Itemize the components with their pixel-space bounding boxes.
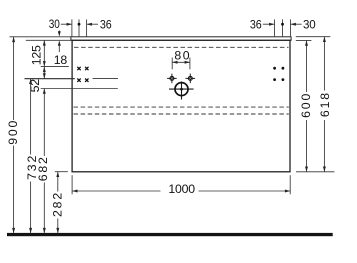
svg-text:125: 125 xyxy=(29,45,43,65)
dim 52 line xyxy=(43,67,45,79)
ext line row1 left xyxy=(41,65,69,67)
svg-text:900: 900 xyxy=(6,120,20,144)
svg-text:600: 600 xyxy=(299,94,313,118)
faucet mark left xyxy=(167,74,177,84)
dim 36 right line xyxy=(263,23,275,25)
dim 900 line xyxy=(13,37,15,120)
ext line bottom right xyxy=(296,171,335,173)
dim 732 line xyxy=(30,79,32,155)
ext line row2 right fragment xyxy=(93,78,118,80)
node dot left xyxy=(78,23,81,26)
dim 282 line xyxy=(57,172,59,192)
dashed line middle upper xyxy=(74,106,289,108)
cabinet body xyxy=(72,40,290,172)
svg-text:1000: 1000 xyxy=(168,182,195,196)
svg-text:36: 36 xyxy=(100,17,112,31)
svg-text:18: 18 xyxy=(54,53,68,67)
ext line 600 top right xyxy=(296,40,312,42)
dim 30 left line xyxy=(61,23,72,25)
svg-text:36: 36 xyxy=(250,17,262,31)
ext line 1000 right xyxy=(289,175,291,194)
ext line body top left xyxy=(26,39,72,41)
dim 125 line xyxy=(43,40,45,66)
svg-text:682: 682 xyxy=(36,157,50,181)
top-right ticks xyxy=(274,19,276,36)
dim 682 line xyxy=(43,89,45,157)
countertop slab xyxy=(71,37,291,41)
floor line xyxy=(7,233,333,236)
dim 618 line xyxy=(323,37,325,91)
node dot right xyxy=(281,23,284,26)
drill dots right group xyxy=(273,67,284,81)
ext line 618 top right xyxy=(296,36,331,38)
ext line row2 left xyxy=(25,78,75,80)
faucet hole circle xyxy=(169,82,194,100)
dim 30 right line xyxy=(291,23,302,25)
dim 600 line xyxy=(306,41,308,93)
ext line slab top left xyxy=(10,36,71,38)
drill cross row2 left xyxy=(77,79,88,82)
svg-text:282: 282 xyxy=(50,193,64,217)
top-left ticks xyxy=(71,19,73,36)
svg-text:618: 618 xyxy=(318,93,332,117)
dashed line middle lower xyxy=(74,113,289,115)
ext line 1000 left xyxy=(71,175,73,194)
drill cross row1 left xyxy=(77,67,88,70)
dim 80 ticks xyxy=(171,58,173,70)
svg-text:30: 30 xyxy=(49,17,60,31)
dim 36 left line xyxy=(87,23,98,25)
svg-text:80: 80 xyxy=(174,49,189,63)
dashed line top xyxy=(74,46,289,48)
dim 18 lower arrow xyxy=(58,45,60,52)
dim 80 line xyxy=(172,61,190,63)
faucet mark right xyxy=(186,74,196,84)
dim 1000 line xyxy=(72,190,160,192)
ref line 682 level xyxy=(41,88,118,90)
ext line cabinet bottom left xyxy=(55,171,68,173)
svg-text:30: 30 xyxy=(303,17,316,31)
dim 18 upper arrow xyxy=(58,30,60,32)
